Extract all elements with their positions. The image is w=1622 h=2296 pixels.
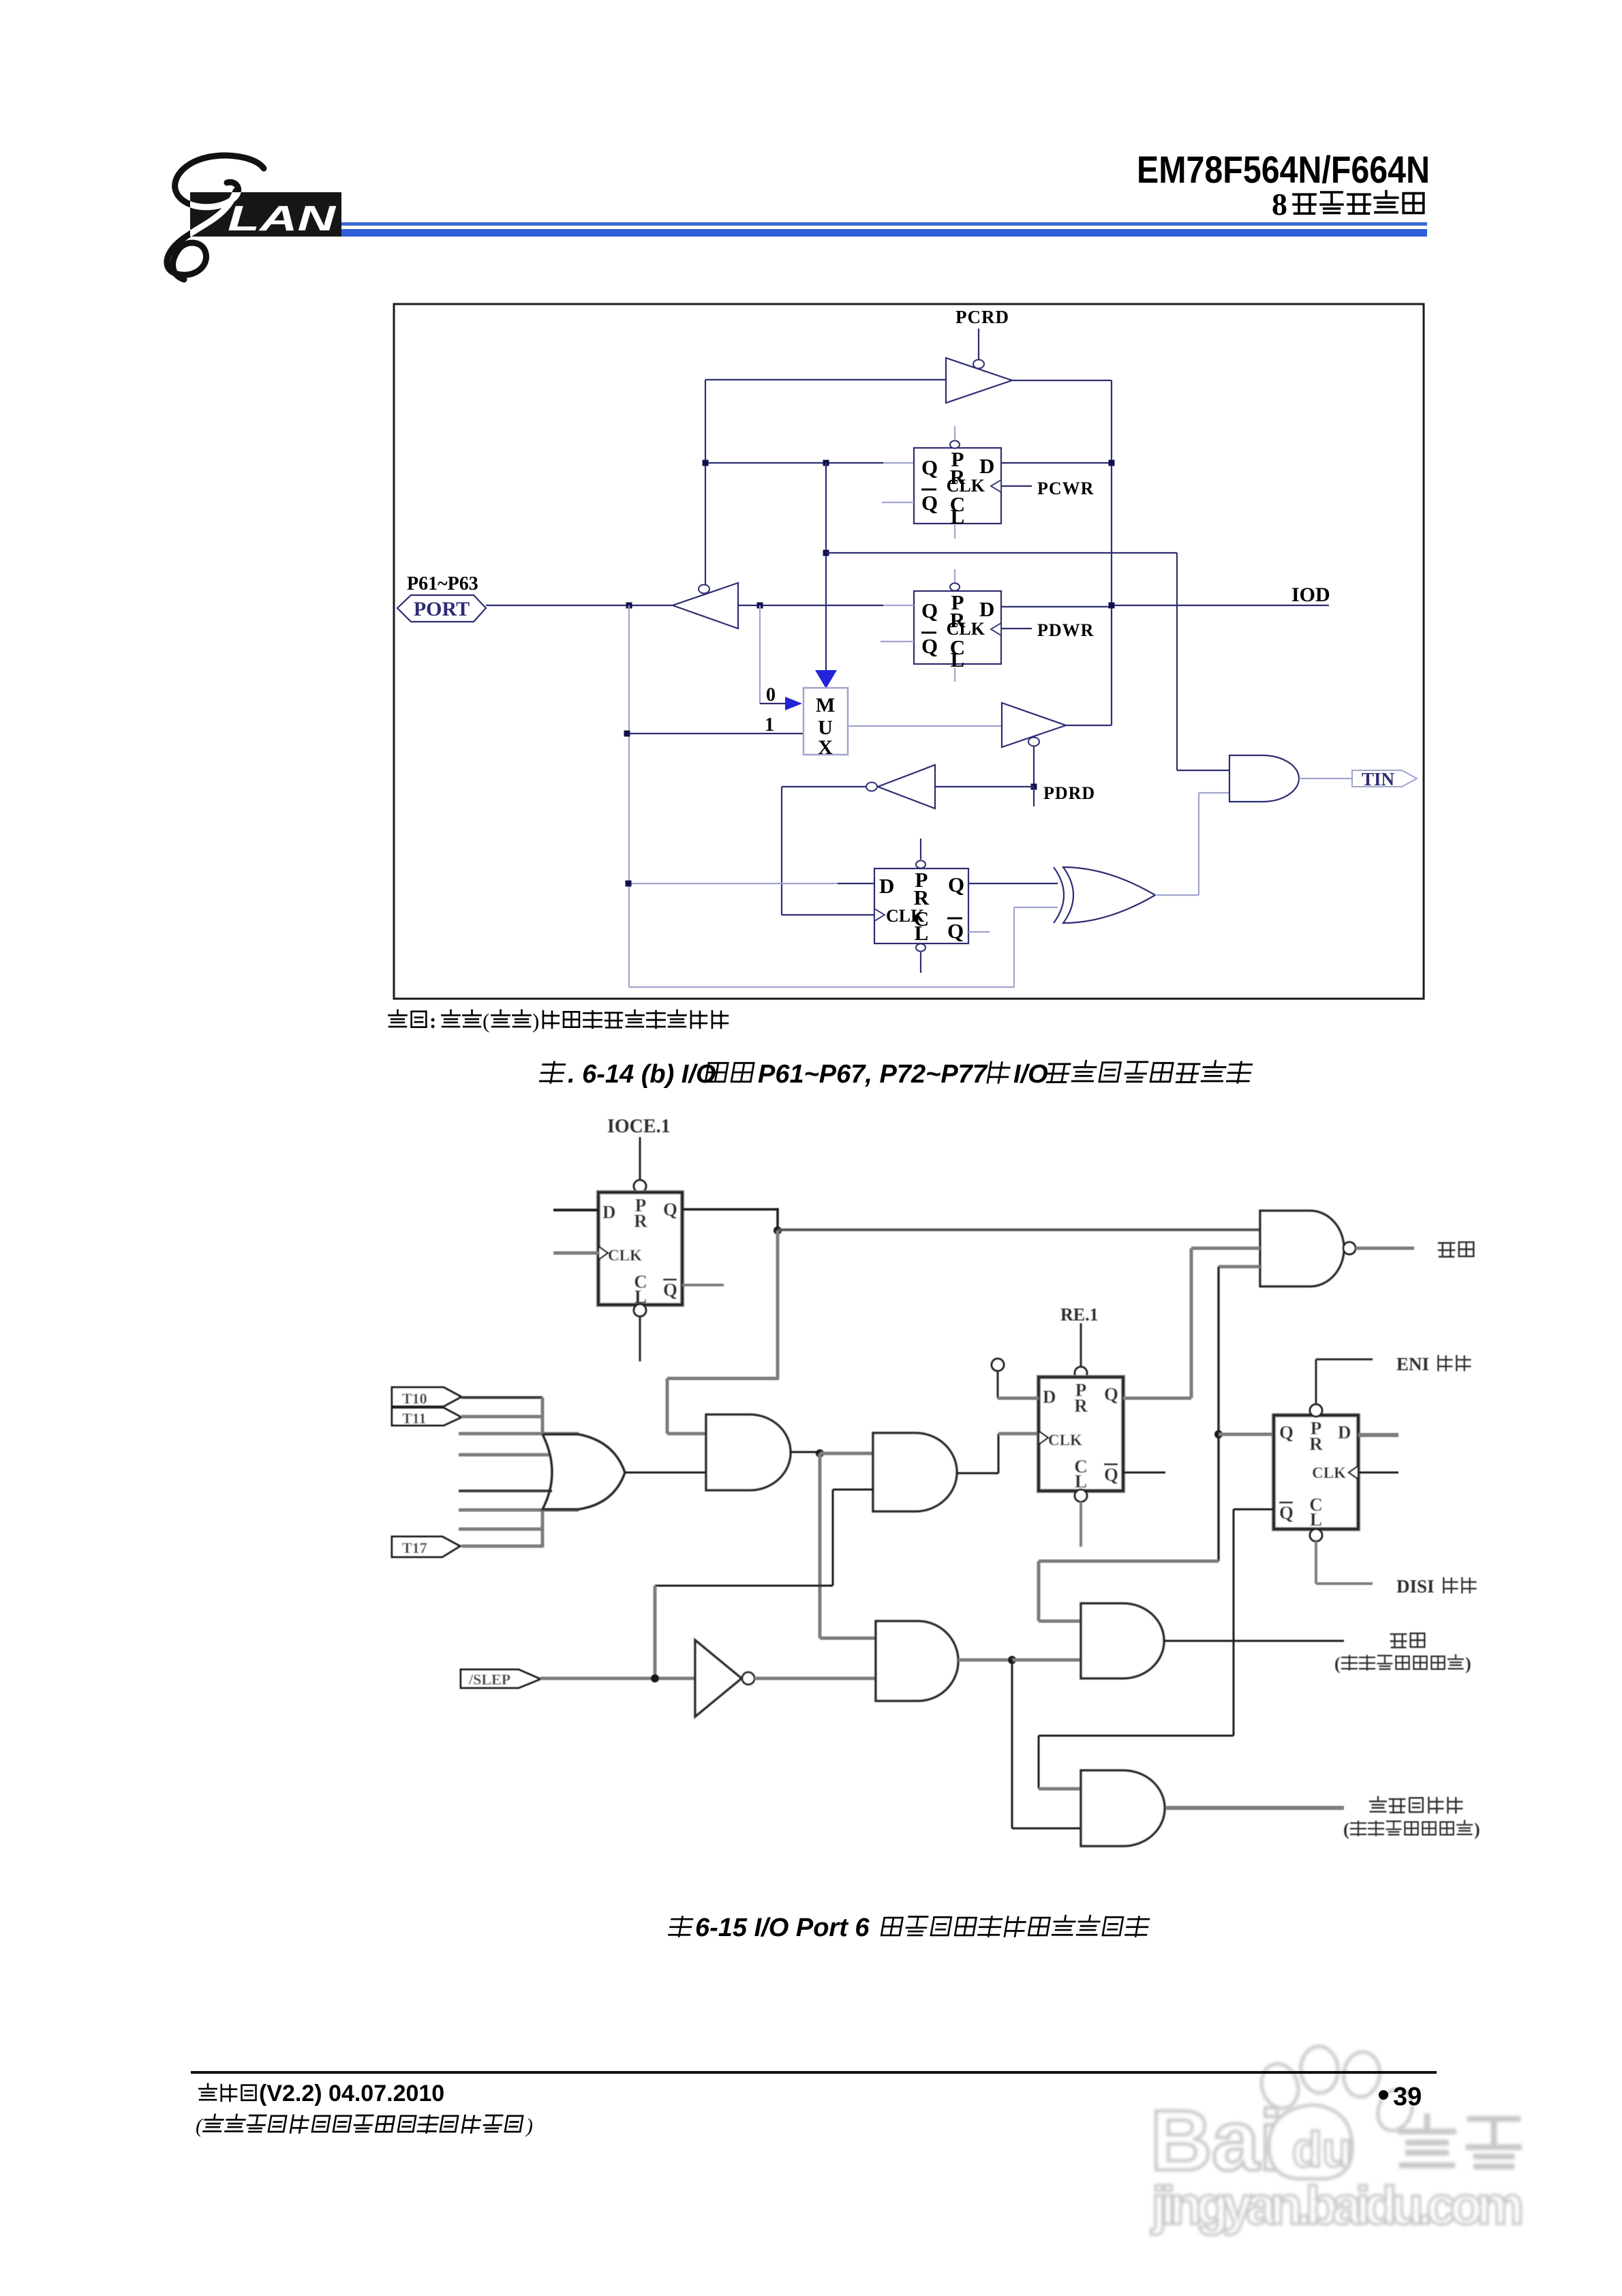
wire to and-gate top input (826, 552, 1177, 554)
svg-text:Q: Q (1104, 1384, 1118, 1404)
wire buffer input from node A (705, 379, 946, 380)
wire bottom feedback loop (629, 986, 1014, 988)
wire TIN dff Qbar stub (968, 931, 990, 933)
svg-text:D: D (1043, 1387, 1056, 1407)
wire PCWR clk (1001, 485, 1032, 487)
svg-text:): ) (532, 1009, 539, 1033)
svg-text:Q: Q (921, 491, 938, 515)
svg-text:6-15 I/O Port 6: 6-15 I/O Port 6 (695, 1914, 870, 1942)
wire IOCE.1 preset (639, 1137, 641, 1181)
or gate wakeup (542, 1434, 625, 1509)
wire xor output (1155, 894, 1199, 896)
svg-text:D: D (979, 597, 994, 621)
flip-flop PDWR data register (914, 591, 1001, 664)
wire PDRD to inverter (935, 786, 1034, 787)
node RE1 D input bubble (992, 1359, 1004, 1371)
wire ioce dff CLK input (553, 1252, 598, 1255)
svg-text:/SLEP: /SLEP (468, 1671, 510, 1688)
svg-text:RE.1: RE.1 (1060, 1305, 1099, 1325)
wire right vertical bus (1111, 380, 1112, 725)
svg-text:Bai: Bai (1150, 2094, 1283, 2188)
junction (626, 881, 632, 887)
flip-flop RE.1 (1039, 1377, 1123, 1491)
svg-text:TIN: TIN (1362, 769, 1395, 789)
svg-text:Q: Q (921, 599, 938, 622)
svg-text:D: D (979, 454, 994, 478)
svg-text:T10: T10 (402, 1390, 427, 1407)
wire ffC D output (1358, 1433, 1398, 1437)
wire and2 bottom input (833, 1489, 873, 1491)
wire nand mid input (1191, 1247, 1260, 1250)
svg-text:R: R (1074, 1395, 1088, 1416)
buffer output driver (right pointing) (1002, 703, 1066, 747)
wire right bus vertical (1217, 1267, 1220, 1561)
wire or output (625, 1472, 706, 1474)
node T17 input banner (392, 1537, 460, 1557)
svg-text:CLK: CLK (947, 476, 985, 496)
note text below figure (388, 1010, 406, 1027)
wire and3 output (958, 1659, 1012, 1662)
svg-text:I/O: I/O (1013, 1060, 1048, 1089)
wire RE1 clear stub (1075, 1490, 1087, 1502)
wire ioce dff D input (553, 1209, 598, 1211)
node T10 input banner (392, 1387, 461, 1406)
node wake interrupt label (1391, 1634, 1406, 1648)
svg-text:CLK: CLK (1312, 1464, 1346, 1481)
junction (774, 1226, 782, 1235)
xor gate (1054, 867, 1064, 923)
svg-text:CLK: CLK (947, 619, 985, 639)
wire TIN dff Q out (968, 883, 1058, 884)
wire ffC preset to ENI (1310, 1404, 1322, 1417)
wire buffer enable stub (1033, 746, 1035, 784)
wire IOD line (1001, 606, 1112, 607)
svg-text:T11: T11 (402, 1410, 426, 1427)
flip-flop PCWR control register (914, 448, 1001, 524)
svg-text:IOCE.1: IOCE.1 (607, 1116, 671, 1137)
wire or input 5 (459, 1490, 552, 1492)
svg-text:Q: Q (1279, 1502, 1294, 1523)
footer version line (199, 2084, 216, 2100)
svg-text:L: L (951, 648, 965, 671)
wire buffer output (1012, 380, 1112, 381)
wire mux select vertical (825, 463, 827, 674)
wire and4 output (1164, 1640, 1344, 1642)
caption figure 6-15 (669, 1917, 692, 1937)
wire and1 to and2 (820, 1452, 873, 1455)
flip-flop IOCE.1 (598, 1192, 682, 1305)
svg-text:L: L (951, 504, 965, 528)
junction (823, 550, 829, 556)
and gate A3 (876, 1621, 958, 1701)
svg-text:Q: Q (921, 455, 938, 479)
wire inverter to dff Q (738, 605, 883, 606)
wire ioce dff Q output (682, 1208, 778, 1211)
svg-text:R: R (1309, 1434, 1323, 1454)
svg-text:1: 1 (765, 714, 774, 736)
wire PCWR dff Qbar stub (882, 502, 914, 503)
svg-text:du: du (1292, 2123, 1352, 2177)
wire PDRD below stub (1033, 787, 1035, 806)
junction (816, 1449, 824, 1457)
junction (624, 731, 630, 737)
header: ELAN logo (167, 155, 264, 280)
node interrupt label (1439, 1243, 1454, 1256)
wire and3 to and4 (1012, 1659, 1081, 1662)
wire or input 6 (459, 1509, 579, 1512)
flip-flop TIN capture (874, 868, 968, 943)
svg-text:CLK: CLK (886, 906, 925, 926)
wire and1 down to and3 (818, 1453, 822, 1638)
svg-text:IOD: IOD (1291, 584, 1330, 606)
svg-text:P61~P67, P72~P77: P61~P67, P72~P77 (758, 1060, 988, 1089)
junction (1109, 460, 1115, 466)
junction (1109, 603, 1115, 609)
svg-text:(: ( (483, 1009, 489, 1033)
junction (703, 460, 709, 466)
wire PCWR dff Q line (705, 462, 883, 464)
svg-text:(: ( (1343, 1819, 1349, 1839)
junction (626, 603, 632, 609)
and gate A5 next instruction (1081, 1770, 1165, 1846)
wire ioce dff clear stub (634, 1304, 646, 1316)
svg-text:D: D (1338, 1422, 1351, 1442)
svg-text:L: L (1310, 1509, 1322, 1530)
wire PCWR dff D line (1001, 462, 1112, 464)
mux input 0 blue arrow (785, 697, 802, 710)
wire PCRD stub (978, 329, 979, 360)
svg-text:Q: Q (663, 1199, 677, 1220)
wire mux output (848, 725, 1002, 727)
wire ffC CLK input (1358, 1472, 1398, 1474)
svg-text::: : (429, 1009, 436, 1033)
junction (651, 1674, 659, 1682)
svg-text:jingyan.baidu.com: jingyan.baidu.com (1150, 2175, 1524, 2235)
buffer PCRD read (tri-state) (946, 358, 1012, 403)
wire inverter output (754, 1677, 876, 1680)
svg-text:PDRD: PDRD (1043, 783, 1095, 803)
svg-text:): ) (1465, 1654, 1471, 1674)
wire mux input 1 (629, 733, 804, 734)
inverter port read (left pointing) (673, 583, 738, 629)
svg-text:CLK: CLK (1048, 1432, 1082, 1449)
wire PCWR dff preset stub (954, 426, 955, 440)
svg-text:ENI: ENI (1396, 1354, 1429, 1374)
junction (823, 460, 829, 466)
svg-text:T17: T17 (402, 1539, 427, 1556)
svg-text:DISI: DISI (1396, 1576, 1435, 1597)
wire nand bottom input (1219, 1265, 1260, 1269)
and gate A1 (706, 1415, 791, 1490)
wire left vertical from port junction (628, 605, 630, 987)
svg-text:Q: Q (921, 634, 938, 658)
svg-text:CLK: CLK (608, 1247, 642, 1264)
wire inverter output to dff clk (782, 786, 866, 787)
wire Q to nand top input (778, 1228, 1260, 1231)
svg-text:0: 0 (766, 684, 776, 706)
wire ioce dff Qbar stub (682, 1284, 724, 1286)
wire or input 7 (459, 1528, 542, 1531)
svg-text:39: 39 (1393, 2083, 1422, 2111)
svg-text:. 6-14 (b) I/O: . 6-14 (b) I/O (568, 1060, 716, 1089)
wire right bus to and4 (1039, 1560, 1219, 1563)
and gate TIN (1229, 755, 1299, 802)
svg-text:Q: Q (1279, 1422, 1294, 1442)
svg-text:Q: Q (663, 1280, 677, 1300)
svg-text:M: M (816, 694, 835, 716)
wire Q down to and1 (776, 1230, 780, 1378)
wire PDWR dff preset stub (954, 569, 955, 583)
wire or input 3 (459, 1432, 579, 1436)
wire ffC Qbar loop to and5 (1234, 1509, 1274, 1511)
wire RE1 D input (997, 1371, 999, 1398)
svg-text:D: D (602, 1202, 616, 1222)
mux select blue arrow (815, 670, 837, 689)
wire to ffC Q input (1219, 1433, 1274, 1436)
wire T10 to or-gate (461, 1396, 542, 1399)
wire PCWR dff clear stub (954, 525, 955, 539)
caption figure 6-14(b) (540, 1062, 565, 1083)
wire buffer output to IOD bus (1066, 725, 1112, 726)
wire PDWR clk (1001, 628, 1032, 629)
svg-text:P61~P63: P61~P63 (407, 573, 478, 594)
wire TIN dff preset stub (920, 839, 921, 860)
watermark baidu jingyan (1150, 2045, 1524, 2235)
svg-text:X: X (818, 736, 833, 759)
svg-text:LAN: LAN (228, 199, 337, 239)
wire and output (1299, 778, 1352, 779)
wire slep line (540, 1677, 695, 1680)
wire and2 output to RE1 clk (957, 1472, 998, 1475)
footer rule (191, 2071, 1437, 2074)
junction (1031, 784, 1037, 790)
node next instruction label (1370, 1797, 1386, 1812)
svg-text:PCWR: PCWR (1037, 479, 1094, 498)
svg-text:8: 8 (1272, 187, 1287, 222)
wire TIN dff clear stub (916, 943, 925, 951)
wire PDWR dff Qbar stub (881, 641, 914, 642)
wire RE1 Q output (1123, 1397, 1191, 1400)
node TIN output banner (1352, 770, 1417, 787)
junction (757, 603, 763, 609)
svg-text:Q: Q (947, 919, 964, 943)
nand gate interrupt (1260, 1211, 1344, 1286)
wire RE1 preset (1080, 1323, 1082, 1368)
svg-text:EM78F564N/F664N: EM78F564N/F664N (1137, 148, 1430, 191)
wire dff D input (628, 883, 838, 884)
svg-text:Q: Q (1104, 1464, 1118, 1485)
inverter slep (695, 1640, 741, 1717)
svg-text:R: R (634, 1211, 647, 1231)
svg-text:): ) (1474, 1819, 1480, 1839)
svg-text:D: D (879, 874, 894, 898)
wire ffC clear to DISI (1310, 1529, 1322, 1541)
svg-text:PORT: PORT (414, 598, 470, 620)
wire nand output (1356, 1247, 1414, 1250)
junction (1008, 1656, 1016, 1664)
wire vertical to inverter bubble (705, 380, 706, 585)
svg-text:PDWR: PDWR (1037, 620, 1094, 640)
flip-flop ENI/DISI (1274, 1415, 1358, 1529)
wire and3 down to and5 (1011, 1660, 1013, 1828)
header blue rules (behind logo) (234, 222, 1427, 226)
figure 6-14b outer frame (394, 304, 1424, 999)
wire RE1 Qbar stub (1123, 1472, 1165, 1474)
and gate A4 wake interrupt (1081, 1603, 1164, 1678)
wire T11 to or-gate (461, 1415, 542, 1419)
svg-text:): ) (525, 2115, 533, 2137)
wire T17 to or-gate (461, 1545, 542, 1548)
wire and5 output (1166, 1806, 1344, 1810)
wire or input 4 (459, 1453, 549, 1457)
junction (1214, 1430, 1223, 1438)
node /SLEP input banner (461, 1670, 540, 1688)
inverter PDRD (left pointing) (878, 765, 935, 809)
svg-text:(V2.2) 04.07.2010: (V2.2) 04.07.2010 (259, 2081, 444, 2106)
svg-text:(: ( (196, 2115, 204, 2137)
wire and1 output (791, 1451, 820, 1453)
footer page number (1379, 2090, 1388, 2100)
svg-text:Q: Q (948, 873, 964, 896)
wire mux input 0 (759, 605, 761, 704)
node T11 input banner (392, 1408, 461, 1425)
mux MUX (804, 688, 848, 755)
svg-text:PCRD: PCRD (955, 307, 1009, 327)
wire PDWR dff clear stub (954, 668, 955, 682)
svg-text:(: ( (1334, 1654, 1341, 1674)
wire port line (486, 605, 673, 606)
and gate A2 (873, 1433, 957, 1511)
